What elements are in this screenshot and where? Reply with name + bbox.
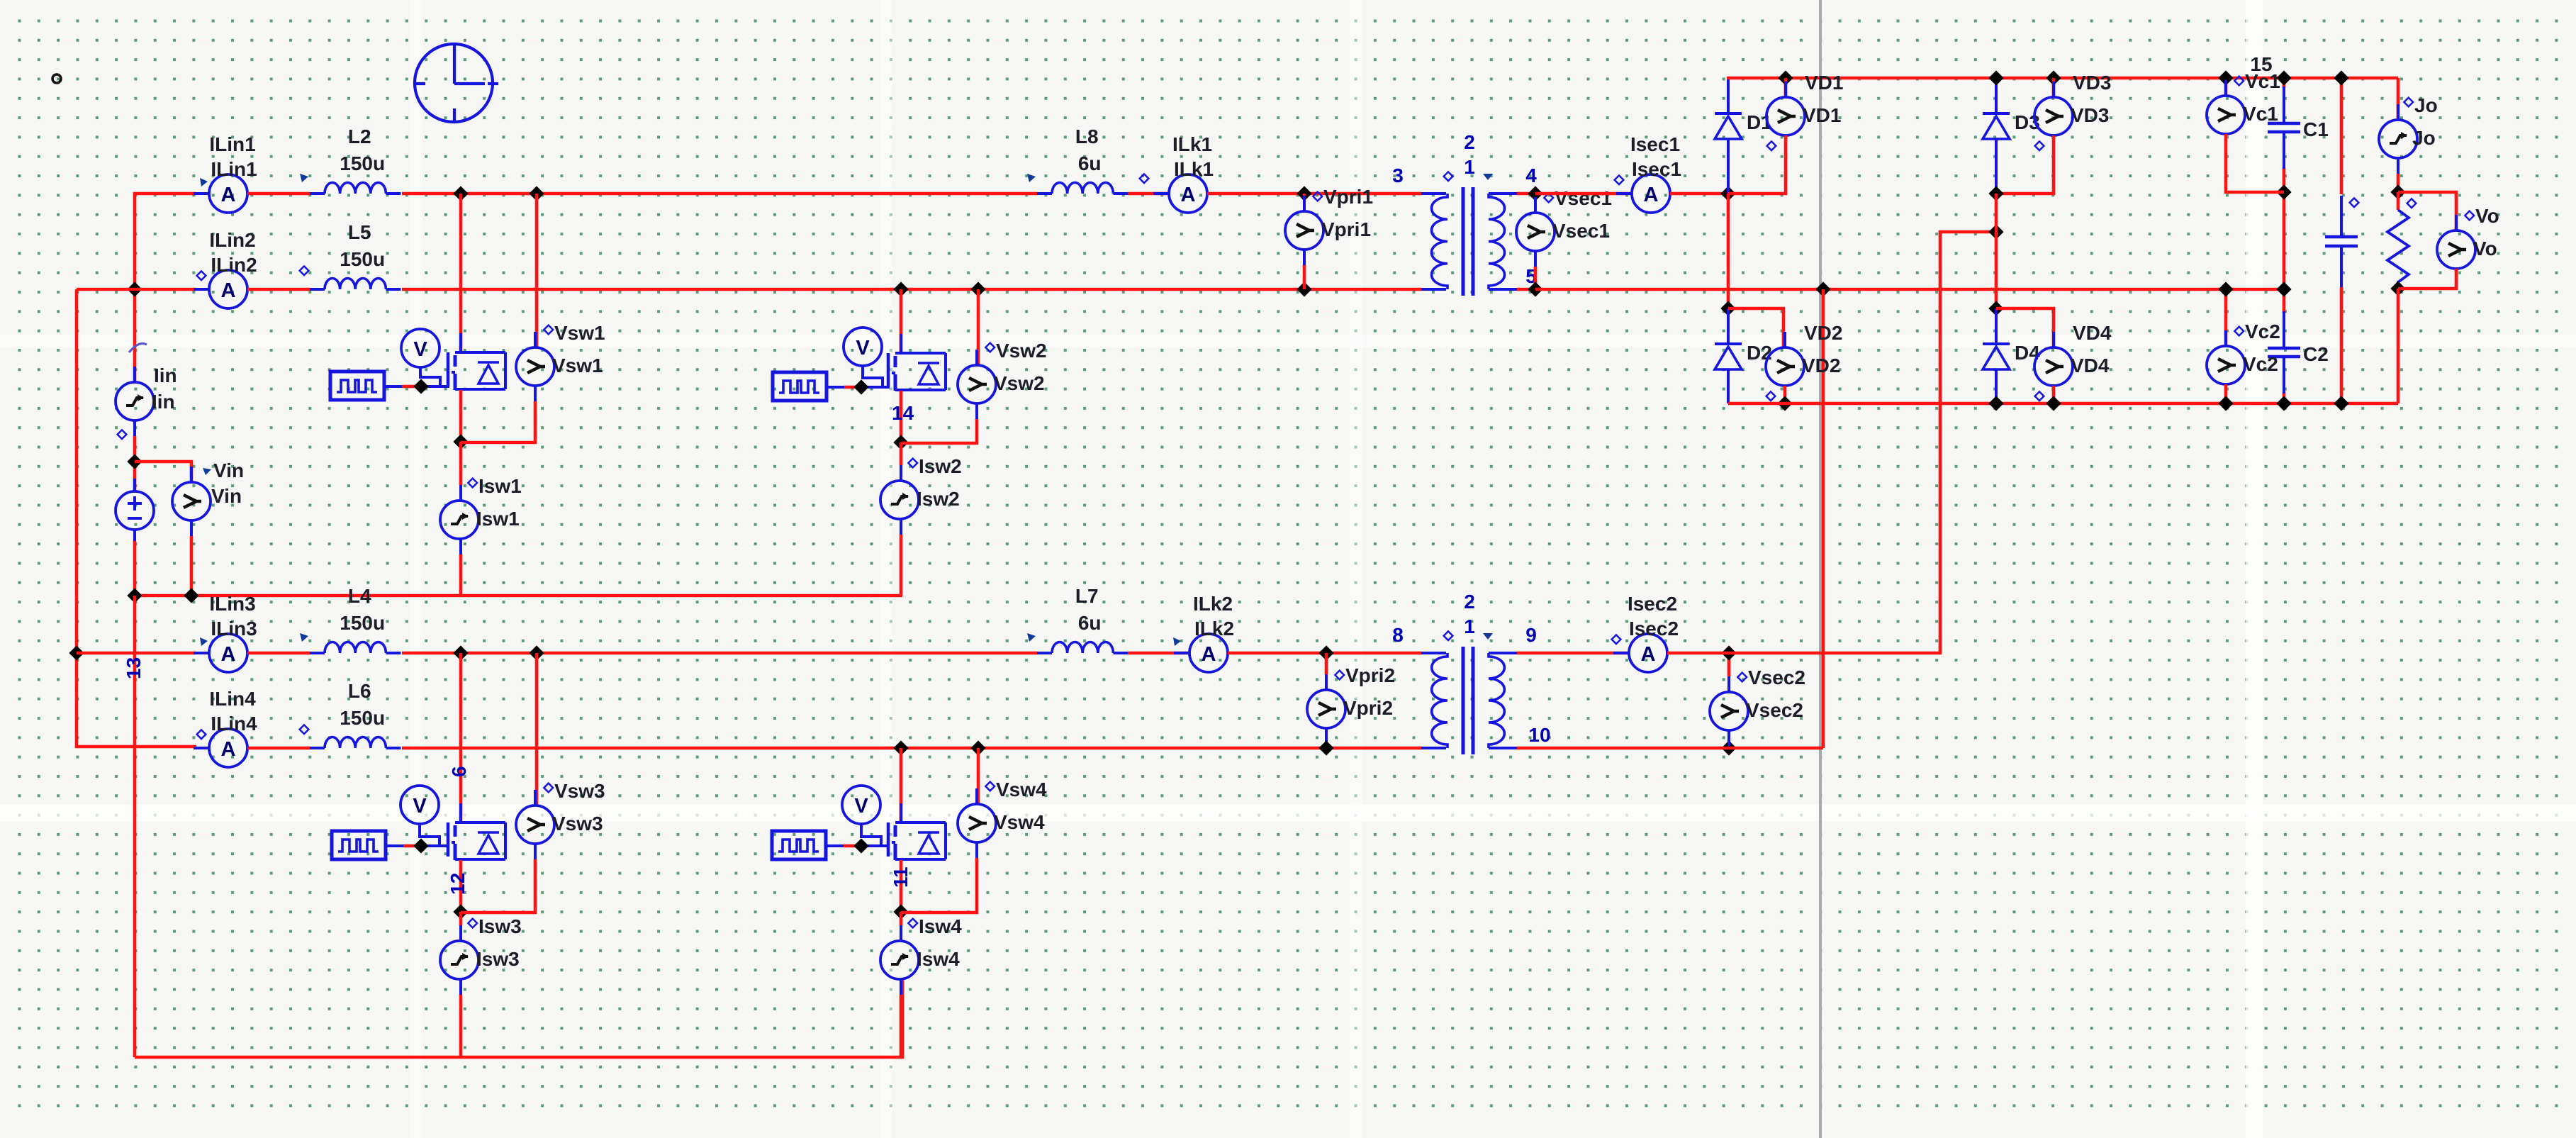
- svg-text:Vsw2: Vsw2: [994, 372, 1045, 394]
- current probe Isw4: [900, 912, 903, 925]
- gate pulse source Q1: [330, 372, 384, 400]
- svg-text:Vc1: Vc1: [2243, 103, 2278, 125]
- inductor L8 6u: [1037, 192, 1052, 195]
- wire isw1 to rail: [459, 554, 463, 596]
- svg-text:Vsw4: Vsw4: [994, 811, 1045, 833]
- capacitor C1: [2283, 87, 2285, 123]
- ammeter ILin4: [194, 747, 209, 749]
- junction vpri1 bottom: [1297, 281, 1311, 296]
- junction vd3 top: [2046, 70, 2061, 85]
- transformer winding secondary: [1489, 653, 1504, 748]
- wire gate Q4: [826, 844, 844, 847]
- junction cout bottom: [2334, 396, 2348, 411]
- svg-text:10: 10: [1528, 724, 1550, 746]
- voltmeter VD2: [1783, 332, 1786, 347]
- svg-text:12: 12: [447, 873, 469, 895]
- svg-text:ILin3: ILin3: [209, 593, 255, 615]
- wire row1 a-l: [247, 192, 310, 196]
- svg-text:14: 14: [892, 402, 914, 424]
- svg-text:Isec1: Isec1: [1632, 158, 1681, 180]
- svg-text:Isw1: Isw1: [476, 508, 520, 530]
- voltmeter Vpri1: [1303, 196, 1306, 211]
- junction vpri2 top: [1318, 645, 1333, 660]
- junction d3 anode: [1988, 186, 2003, 201]
- voltmeter Vsec2: [1727, 676, 1730, 692]
- svg-text:V: V: [856, 337, 870, 359]
- junction vsw3 row3: [529, 645, 544, 660]
- voltmeter Vin: [190, 467, 193, 482]
- wire q2 drain: [900, 289, 903, 352]
- wire node4 to isec1: [1535, 192, 1632, 196]
- junction gate q3: [413, 838, 428, 853]
- wire vsw3 to source junction: [461, 859, 535, 913]
- junction row3 left: [69, 645, 84, 660]
- junction isec2 out: [1721, 645, 1736, 660]
- low bus: [1728, 402, 2398, 406]
- diode D4: [1983, 342, 2010, 345]
- svg-text:6: 6: [448, 766, 470, 777]
- wire gate Q1: [384, 385, 402, 388]
- wire row4 a-l: [247, 747, 310, 750]
- svg-text:13: 13: [123, 657, 145, 679]
- wire vsw3 branch: [535, 653, 539, 805]
- left distribution vertical: [77, 289, 196, 747]
- svg-text:3: 3: [1392, 164, 1404, 186]
- wire hop arc: [129, 343, 147, 352]
- wire row4 extension: [1535, 747, 1823, 750]
- svg-text:Isw2: Isw2: [917, 488, 960, 510]
- svg-text:Vsw1: Vsw1: [554, 322, 605, 344]
- wire vsw2 branch: [977, 289, 980, 365]
- wire row3 main: [402, 652, 1037, 655]
- svg-text:Isw1: Isw1: [478, 475, 522, 497]
- capacitor C2: [2283, 311, 2285, 348]
- svg-text:ILin3: ILin3: [211, 618, 257, 640]
- wire row1 left vertical: [135, 194, 196, 382]
- input rail horizontal: [135, 594, 902, 598]
- junction rail vin: [184, 588, 198, 603]
- svg-text:2: 2: [1464, 131, 1475, 153]
- junction q1 source: [453, 434, 468, 449]
- wire q4 source: [900, 860, 903, 912]
- current probe Isw3: [459, 912, 463, 925]
- node marker top-left: [52, 74, 61, 83]
- junction sec interlink top: [1815, 281, 1830, 296]
- junction vd4 low: [2046, 396, 2061, 411]
- wire row3 a-l: [247, 652, 310, 655]
- wire vd3 bottom: [1996, 135, 2054, 194]
- svg-text:Vsw4: Vsw4: [996, 779, 1047, 800]
- svg-text:L4: L4: [348, 585, 371, 607]
- voltmeter Vc1: [2224, 80, 2227, 96]
- ammeter Iin: [133, 367, 136, 382]
- svg-text:ILin2: ILin2: [211, 254, 257, 276]
- voltage source Vdc: [133, 479, 136, 491]
- svg-text:L2: L2: [348, 125, 371, 147]
- voltmeter Vsw1: [534, 332, 537, 347]
- junction c1 bottom: [2276, 184, 2291, 199]
- svg-text:Vpri1: Vpri1: [1321, 218, 1371, 240]
- junction d2 top: [1720, 301, 1735, 316]
- svg-text:150u: 150u: [340, 707, 385, 729]
- output capacitor branch: [2340, 78, 2343, 194]
- svg-text:11: 11: [890, 866, 912, 888]
- svg-text:Vsw3: Vsw3: [552, 813, 603, 835]
- svg-text:ILin2: ILin2: [209, 229, 255, 251]
- wire load bottom to low bus: [2397, 289, 2400, 403]
- wire row2 main: [402, 288, 1421, 291]
- junction cout top: [2334, 70, 2348, 85]
- svg-text:ILin1: ILin1: [211, 158, 257, 180]
- wire vin branch top: [135, 462, 191, 482]
- junction d4 top: [1988, 301, 2003, 316]
- wire row2 extension to caps: [1535, 288, 2284, 291]
- junction vd1 top: [1778, 70, 1793, 85]
- wire bridge1 vertical: [1727, 194, 1730, 308]
- svg-text:Vin: Vin: [211, 485, 242, 507]
- bottom rail horizontal: [135, 979, 902, 1057]
- junction vsw4 row4: [970, 740, 985, 755]
- svg-text:Vc2: Vc2: [2243, 353, 2278, 375]
- wire source vertical to bottom rail: [133, 596, 137, 1057]
- svg-text:Vsec2: Vsec2: [1748, 666, 1805, 688]
- svg-text:A: A: [1202, 643, 1216, 666]
- svg-text:ILk1: ILk1: [1174, 158, 1214, 180]
- wire sec interlink vertical: [1822, 289, 1825, 748]
- wire q1 source: [459, 390, 463, 442]
- current probe Isw2: [900, 442, 903, 465]
- svg-text:ILin4: ILin4: [211, 713, 257, 735]
- wire bridge2 vertical: [1995, 194, 1998, 308]
- junction d4 low: [1988, 396, 2003, 411]
- svg-text:9: 9: [1525, 624, 1537, 646]
- svg-text:6u: 6u: [1078, 152, 1102, 174]
- wire row2 left segment: [77, 288, 196, 291]
- wire l7 to ilk2: [1128, 652, 1189, 655]
- inductor L2 150u: [310, 192, 325, 195]
- voltmeter Vsec2 branch: [1727, 653, 1731, 676]
- diode D1: [1727, 78, 1730, 113]
- svg-text:VD2: VD2: [1802, 355, 1840, 376]
- wire row1 to transformer: [1207, 192, 1421, 196]
- svg-text:VD3: VD3: [2073, 72, 2111, 94]
- voltmeter Vc2: [2224, 330, 2227, 346]
- svg-text:A: A: [221, 279, 236, 302]
- junction vc2 top: [2218, 281, 2233, 296]
- svg-text:Vsec1: Vsec1: [1552, 220, 1610, 242]
- junction c1 top: [2276, 70, 2291, 85]
- junction gate q4: [853, 838, 868, 853]
- svg-text:4: 4: [1525, 164, 1537, 186]
- gate pulse source Q4: [772, 831, 826, 859]
- wire cap C1 branch: [2283, 78, 2286, 88]
- svg-text:Vin: Vin: [213, 459, 244, 481]
- svg-text:L8: L8: [1075, 125, 1099, 147]
- wire row3 to transformer2: [1228, 652, 1421, 655]
- svg-text:ILk1: ILk1: [1172, 133, 1212, 155]
- voltmeter Vsw3: [534, 790, 537, 805]
- svg-text:ILk2: ILk2: [1193, 593, 1233, 615]
- svg-text:Iin: Iin: [154, 364, 177, 386]
- diode D3: [1995, 78, 1998, 113]
- junction node4: [1528, 186, 1542, 201]
- wire vc1 bottom: [2226, 134, 2284, 192]
- svg-text:A: A: [221, 738, 236, 761]
- svg-text:15: 15: [2250, 53, 2272, 75]
- junction q3 source: [453, 904, 468, 919]
- svg-text:1: 1: [1464, 615, 1475, 637]
- svg-text:Isw3: Isw3: [476, 948, 520, 970]
- junction vc1 top: [2218, 70, 2233, 85]
- wire top bus corner to Jo: [2397, 78, 2400, 120]
- transformer lead stubs: [1517, 652, 1536, 655]
- voltmeter Vo branch: [2398, 192, 2456, 230]
- svg-text:Isec2: Isec2: [1628, 593, 1677, 615]
- transistor Q2 mosfet: [887, 353, 890, 387]
- svg-text:Vpri1: Vpri1: [1323, 186, 1373, 208]
- wire vin branch bottom: [190, 536, 194, 596]
- output capacitor: [2340, 196, 2343, 237]
- screen divider line: [1819, 0, 1822, 1138]
- svg-text:A: A: [1644, 184, 1659, 206]
- junction q1 drain row1: [453, 186, 468, 201]
- transformer winding primary: [1421, 652, 1446, 654]
- svg-text:V: V: [413, 338, 427, 361]
- svg-text:8: 8: [1392, 624, 1404, 646]
- wire vo bottom: [2398, 269, 2456, 289]
- current probe Jo: [2397, 104, 2399, 120]
- voltmeter Vpri2: [1325, 674, 1328, 690]
- inductor L6 150u: [310, 747, 325, 749]
- transistor Q1 mosfet: [447, 352, 450, 386]
- svg-text:ILin4: ILin4: [209, 688, 256, 710]
- svg-text:150u: 150u: [340, 152, 385, 174]
- svg-text:VD1: VD1: [1805, 72, 1843, 94]
- svg-text:VD4: VD4: [2071, 355, 2110, 376]
- wire row2 a-l: [247, 288, 310, 291]
- transformer winding secondary: [1489, 194, 1505, 289]
- svg-text:Isw3: Isw3: [478, 915, 522, 937]
- wire q3 source: [459, 860, 463, 912]
- wire vd1 bottom: [1728, 135, 1786, 194]
- wire cap C2 branch: [2283, 289, 2286, 313]
- junction vpri2 bottom: [1318, 740, 1333, 755]
- junction q2 source: [893, 435, 908, 450]
- svg-text:Jo: Jo: [2412, 127, 2436, 149]
- junction vpri1 top: [1297, 186, 1311, 201]
- wire vsw2 to source junction: [901, 419, 977, 443]
- svg-text:V: V: [854, 795, 868, 818]
- junction bridge2 feed: [1988, 224, 2003, 239]
- svg-text:Iin: Iin: [152, 391, 175, 413]
- wire q2 source: [900, 391, 903, 442]
- svg-text:VD4: VD4: [2073, 322, 2112, 344]
- svg-text:L5: L5: [348, 221, 371, 243]
- voltmeter Vsec1: [1534, 197, 1537, 213]
- junction d3 top: [1988, 70, 2003, 85]
- wire q3 drain: [459, 653, 463, 822]
- svg-text:VD2: VD2: [1804, 322, 1842, 344]
- svg-text:Isec1: Isec1: [1630, 133, 1680, 155]
- voltmeter Vsw4: [975, 788, 978, 804]
- wire vd2 bottom: [1783, 386, 1787, 403]
- clock symbol: [413, 44, 498, 122]
- svg-text:2: 2: [1464, 591, 1475, 613]
- svg-text:6u: 6u: [1078, 612, 1102, 634]
- junction vin top: [127, 454, 142, 469]
- voltmeter Vsec1 branch: [1534, 194, 1538, 197]
- svg-text:150u: 150u: [340, 248, 385, 270]
- wire isec2 to junction: [1667, 652, 1729, 655]
- junction rail x190: [127, 588, 142, 603]
- voltmeter VD1: [1784, 82, 1787, 97]
- svg-text:C2: C2: [2303, 343, 2329, 365]
- wire row1 main: [402, 192, 1037, 196]
- ammeter ILin3: [194, 652, 209, 654]
- voltmeter Vsw2: [975, 350, 978, 365]
- wire iin to source: [133, 436, 137, 491]
- ammeter ILin2: [194, 288, 209, 291]
- wire vc2 bottom: [2224, 384, 2228, 403]
- ammeter Isec2: [1613, 652, 1629, 654]
- transformer winding primary: [1421, 192, 1446, 195]
- transformer lead stubs: [1517, 192, 1536, 196]
- svg-text:VD1: VD1: [1803, 104, 1841, 126]
- junction q3 drain row3: [453, 645, 468, 660]
- svg-text:A: A: [221, 184, 236, 206]
- wire gate Q2: [827, 386, 844, 389]
- ammeter ILin1: [194, 192, 209, 195]
- wire row4 main: [402, 747, 1421, 750]
- svg-text:V: V: [413, 795, 427, 818]
- svg-text:Isec2: Isec2: [1629, 618, 1679, 640]
- gate pulse source Q2: [773, 372, 827, 401]
- voltmeter VD3: [2052, 82, 2055, 97]
- voltmeter Vo: [2455, 215, 2458, 230]
- junction load top: [2390, 184, 2405, 199]
- svg-text:A: A: [221, 643, 236, 666]
- svg-text:Vpri2: Vpri2: [1345, 664, 1395, 686]
- wire top bus: [1727, 77, 2398, 80]
- wire node9 to isec2: [1535, 652, 1629, 655]
- svg-text:ILin1: ILin1: [209, 133, 255, 155]
- wire vsw4 branch: [977, 748, 980, 804]
- current probe Isw1: [459, 442, 463, 485]
- voltmeter Vc1 branch: [2224, 78, 2228, 96]
- svg-text:A: A: [1641, 643, 1656, 666]
- wire isec2 node to riser: [1729, 232, 1996, 653]
- svg-text:1: 1: [1464, 156, 1475, 178]
- transformer core: [1462, 647, 1465, 754]
- junction vd2 low: [1777, 396, 1792, 411]
- junction q4 drain row4: [893, 740, 908, 755]
- wire q1 drain: [459, 194, 463, 352]
- voltmeter Vpri1 branch: [1303, 194, 1306, 196]
- junction gate q1: [413, 379, 428, 394]
- svg-text:L7: L7: [1075, 585, 1099, 607]
- transistor Q4 mosfet: [887, 822, 890, 857]
- junction vsec2 bottom: [1721, 740, 1736, 755]
- svg-text:Vsec2: Vsec2: [1746, 699, 1803, 721]
- gate voltmeter Q2: [844, 328, 882, 366]
- svg-text:150u: 150u: [340, 612, 385, 634]
- inductor L5 150u: [310, 288, 325, 291]
- transistor Q3 mosfet: [447, 822, 450, 857]
- junction q4 source: [893, 904, 908, 919]
- gate voltmeter Q3: [401, 786, 439, 824]
- junction vsw1 row1: [529, 186, 544, 201]
- voltmeter Vc2 branch: [2224, 289, 2228, 346]
- svg-text:A: A: [1181, 184, 1196, 206]
- svg-text:Jo: Jo: [2414, 94, 2438, 116]
- svg-text:C1: C1: [2303, 118, 2329, 140]
- wire isw4 to rail: [900, 995, 903, 1057]
- wire gate Q3: [386, 844, 403, 847]
- svg-text:Vsw3: Vsw3: [554, 780, 605, 802]
- load resistor: [2397, 192, 2400, 210]
- gate voltmeter Q1: [401, 329, 439, 367]
- junction q2 drain row2: [893, 281, 908, 296]
- junction vc2 low: [2218, 396, 2233, 411]
- svg-text:Vc2: Vc2: [2245, 320, 2280, 342]
- wire isec1 to bridge: [1670, 192, 1728, 196]
- wire vd4 bottom: [2052, 386, 2056, 403]
- inductor L7 6u: [1037, 652, 1052, 654]
- ammeter ILk1: [1153, 192, 1169, 195]
- diode D2: [1715, 342, 1742, 345]
- voltmeter VD1 branch: [1784, 78, 1788, 97]
- wire isw2 to rail: [900, 535, 903, 596]
- gate voltmeter Q4: [842, 786, 880, 824]
- wire l8 to ilk1: [1128, 192, 1169, 196]
- svg-text:L6: L6: [348, 680, 371, 702]
- svg-text:Isw2: Isw2: [919, 455, 962, 477]
- svg-text:Isw4: Isw4: [917, 948, 960, 970]
- ammeter ILk2: [1174, 652, 1189, 654]
- voltmeter VD2 branch: [1728, 308, 1783, 347]
- gate pulse source Q3: [332, 831, 386, 859]
- junction gate q2: [853, 379, 868, 394]
- voltmeter VD4: [2052, 332, 2055, 347]
- inductor L4 150u: [310, 652, 325, 654]
- wire q4 drain: [900, 748, 903, 822]
- junction vsw2 row2: [970, 281, 985, 296]
- wire vsw1 branch: [535, 194, 539, 347]
- junction bridge1 input: [1720, 186, 1735, 201]
- voltmeter Vpri2 branch: [1325, 653, 1328, 674]
- wire isw3 to rail: [459, 995, 463, 1057]
- ammeter ILk2: [1173, 637, 1181, 646]
- svg-text:VD3: VD3: [2071, 104, 2109, 126]
- wire vsw1 to source junction: [461, 401, 535, 442]
- svg-text:Vo: Vo: [2475, 205, 2499, 227]
- transformer core: [1462, 187, 1465, 296]
- voltmeter VD4 branch: [1996, 308, 2054, 347]
- wire jo to load: [2397, 174, 2400, 192]
- svg-text:Vpri2: Vpri2: [1343, 697, 1393, 719]
- junction node5: [1528, 281, 1542, 296]
- wire source to rail: [133, 541, 137, 596]
- junction c2 bottom: [2276, 396, 2291, 411]
- svg-text:ILk2: ILk2: [1194, 618, 1234, 640]
- wire row3 left segment: [77, 652, 196, 655]
- ammeter Isec1: [1616, 192, 1632, 195]
- svg-text:Vsw2: Vsw2: [996, 340, 1047, 362]
- junction row2 x190: [127, 281, 142, 296]
- junction c2 top: [2276, 281, 2291, 296]
- voltmeter VD3 branch: [2052, 78, 2056, 97]
- svg-text:Vsec1: Vsec1: [1555, 187, 1612, 209]
